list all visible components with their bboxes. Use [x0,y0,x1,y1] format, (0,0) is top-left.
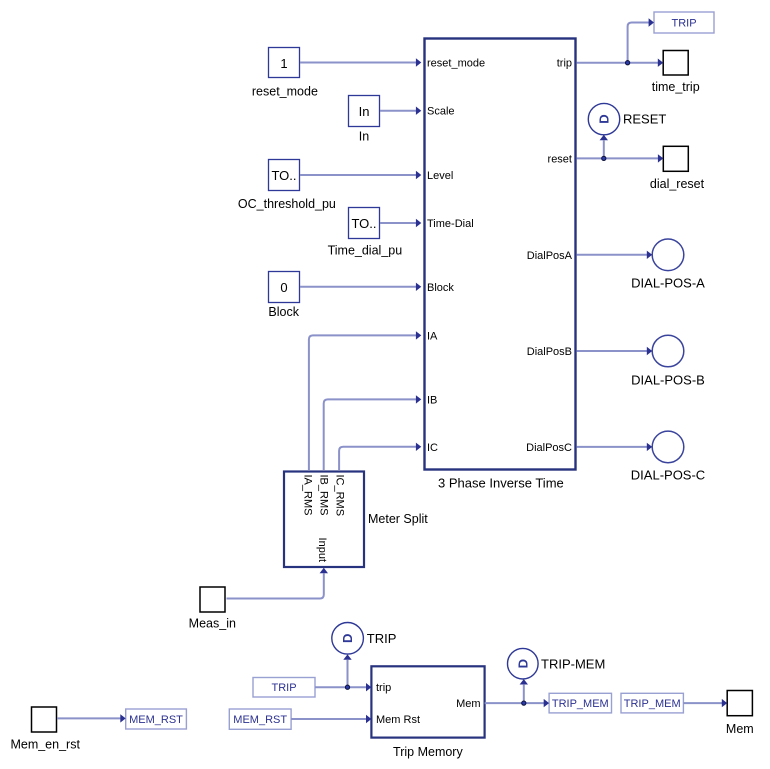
svg-text:MEM_RST: MEM_RST [233,714,287,726]
svg-text:OC_threshold_pu: OC_threshold_pu [238,197,336,211]
from tag MEM_RST bottom [229,709,291,729]
wire reset output with branch to D circle and dial_reset [577,135,664,163]
svg-text:Block: Block [427,282,454,294]
constant block In [349,96,380,144]
outport block Mem_en_rst [10,707,80,752]
block Trip Memory [371,666,484,759]
wire DialPosA [577,251,653,259]
svg-text:IC: IC [427,442,438,454]
svg-text:Meter Split: Meter Split [368,512,428,526]
svg-text:IB: IB [427,394,437,406]
junction node Mem output [522,701,526,705]
svg-text:Input: Input [316,538,328,562]
svg-text:In: In [359,130,369,144]
svg-text:DialPosC: DialPosC [526,442,572,454]
wire MEM_RST to Trip Memory Mem Rst [291,715,371,723]
svg-text:Trip Memory: Trip Memory [393,745,463,759]
svg-text:TRIP: TRIP [271,682,296,694]
inport block dial_reset [650,146,705,191]
svg-text:dial_reset: dial_reset [650,177,705,191]
outport block Meas_in [189,587,236,630]
svg-text:Mem Rst: Mem Rst [376,714,420,726]
svg-text:DIAL-POS-B: DIAL-POS-B [631,372,705,387]
wire Block to U1 Block [300,283,421,291]
svg-text:reset_mode: reset_mode [252,84,318,98]
svg-text:0: 0 [280,280,287,295]
wire TRIP tag to Trip Memory trip with branch to D circle [315,654,371,691]
svg-text:DialPosA: DialPosA [527,250,573,262]
wire reset_mode to U1 [300,58,421,66]
constant block Block value 0 [268,272,299,320]
inport block Mem [726,691,754,737]
wire IC_RMS to U1 IC [339,443,421,470]
block U1 3 Phase Inverse Time [425,39,576,491]
wire Mem output with branch to D circle and TRIP_MEM [485,679,549,707]
svg-text:time_trip: time_trip [652,80,700,94]
svg-text:Time_dial_pu: Time_dial_pu [328,244,403,258]
junction node trip [626,61,630,65]
svg-text:TRIP_MEM: TRIP_MEM [552,698,609,710]
svg-text:Mem: Mem [726,722,754,736]
junction node reset [602,156,606,160]
svg-text:Block: Block [268,305,299,319]
from tag TRIP bottom [253,678,315,698]
outport circle DIAL-POS-B [631,335,705,387]
wire Time_dial_pu to U1 Time-Dial [380,219,421,227]
svg-text:reset: reset [548,153,572,165]
svg-text:DialPosB: DialPosB [527,346,572,358]
junction node trip memory input [345,685,349,689]
svg-text:3 Phase Inverse Time: 3 Phase Inverse Time [438,476,564,491]
goto tag MEM_RST left [126,709,187,729]
svg-text:Mem_en_rst: Mem_en_rst [10,738,80,752]
wire In to U1 Scale [380,107,421,115]
scope tag circle D TRIP-MEM [508,648,606,679]
svg-text:1: 1 [280,56,287,71]
svg-text:TRIP: TRIP [367,631,397,646]
constant block OC_threshold_pu TO.. [238,160,336,212]
svg-text:DIAL-POS-C: DIAL-POS-C [631,468,705,483]
svg-text:RESET: RESET [623,112,666,127]
svg-text:Mem: Mem [456,698,480,710]
constant block reset_mode value 1 [252,48,318,99]
wire IA_RMS to U1 IA [309,331,421,470]
outport circle DIAL-POS-C [631,431,705,483]
wire Mem_en_rst to MEM_RST [57,714,126,722]
wire DialPosB [577,347,653,355]
scope tag circle D RESET [588,103,666,134]
svg-text:IA: IA [427,330,438,342]
svg-text:MEM_RST: MEM_RST [129,714,183,726]
from tag TRIP_MEM right [621,693,683,713]
svg-text:trip: trip [376,682,391,694]
svg-text:Scale: Scale [427,106,455,118]
svg-text:TRIP_MEM: TRIP_MEM [624,698,681,710]
goto tag TRIP top [654,12,714,33]
svg-text:D: D [597,114,612,123]
constant block Time_dial_pu TO.. [328,208,403,258]
wire DialPosC [577,443,653,451]
svg-text:IA_RMS: IA_RMS [301,475,313,516]
svg-text:TRIP-MEM: TRIP-MEM [541,657,605,672]
svg-text:Meas_in: Meas_in [189,616,236,630]
wire trip output with branch to TRIP tag and time_trip [577,18,664,67]
svg-text:TO..: TO.. [271,168,296,183]
goto tag TRIP_MEM left [549,693,611,713]
outport circle DIAL-POS-A [631,239,705,291]
inport block time_trip [652,51,700,95]
svg-text:TO..: TO.. [351,216,376,231]
svg-text:IC_RMS: IC_RMS [334,475,346,517]
svg-text:In: In [359,104,370,119]
svg-text:TRIP: TRIP [671,18,696,30]
svg-text:DIAL-POS-A: DIAL-POS-A [631,276,705,291]
wire OC_threshold_pu to U1 Level [300,171,421,179]
wire IB_RMS to U1 IB [324,395,422,470]
svg-text:reset_mode: reset_mode [427,58,485,70]
scope tag circle D TRIP [332,623,397,655]
svg-text:Level: Level [427,170,453,182]
svg-text:D: D [340,634,355,643]
block Meter Split [284,472,428,568]
svg-text:Time-Dial: Time-Dial [427,218,474,230]
svg-text:D: D [515,659,530,668]
wire Meas_in to Meter Split Input [227,568,329,599]
svg-text:trip: trip [557,58,572,70]
svg-text:IB_RMS: IB_RMS [317,475,329,516]
wire TRIP_MEM to Mem [683,699,727,707]
